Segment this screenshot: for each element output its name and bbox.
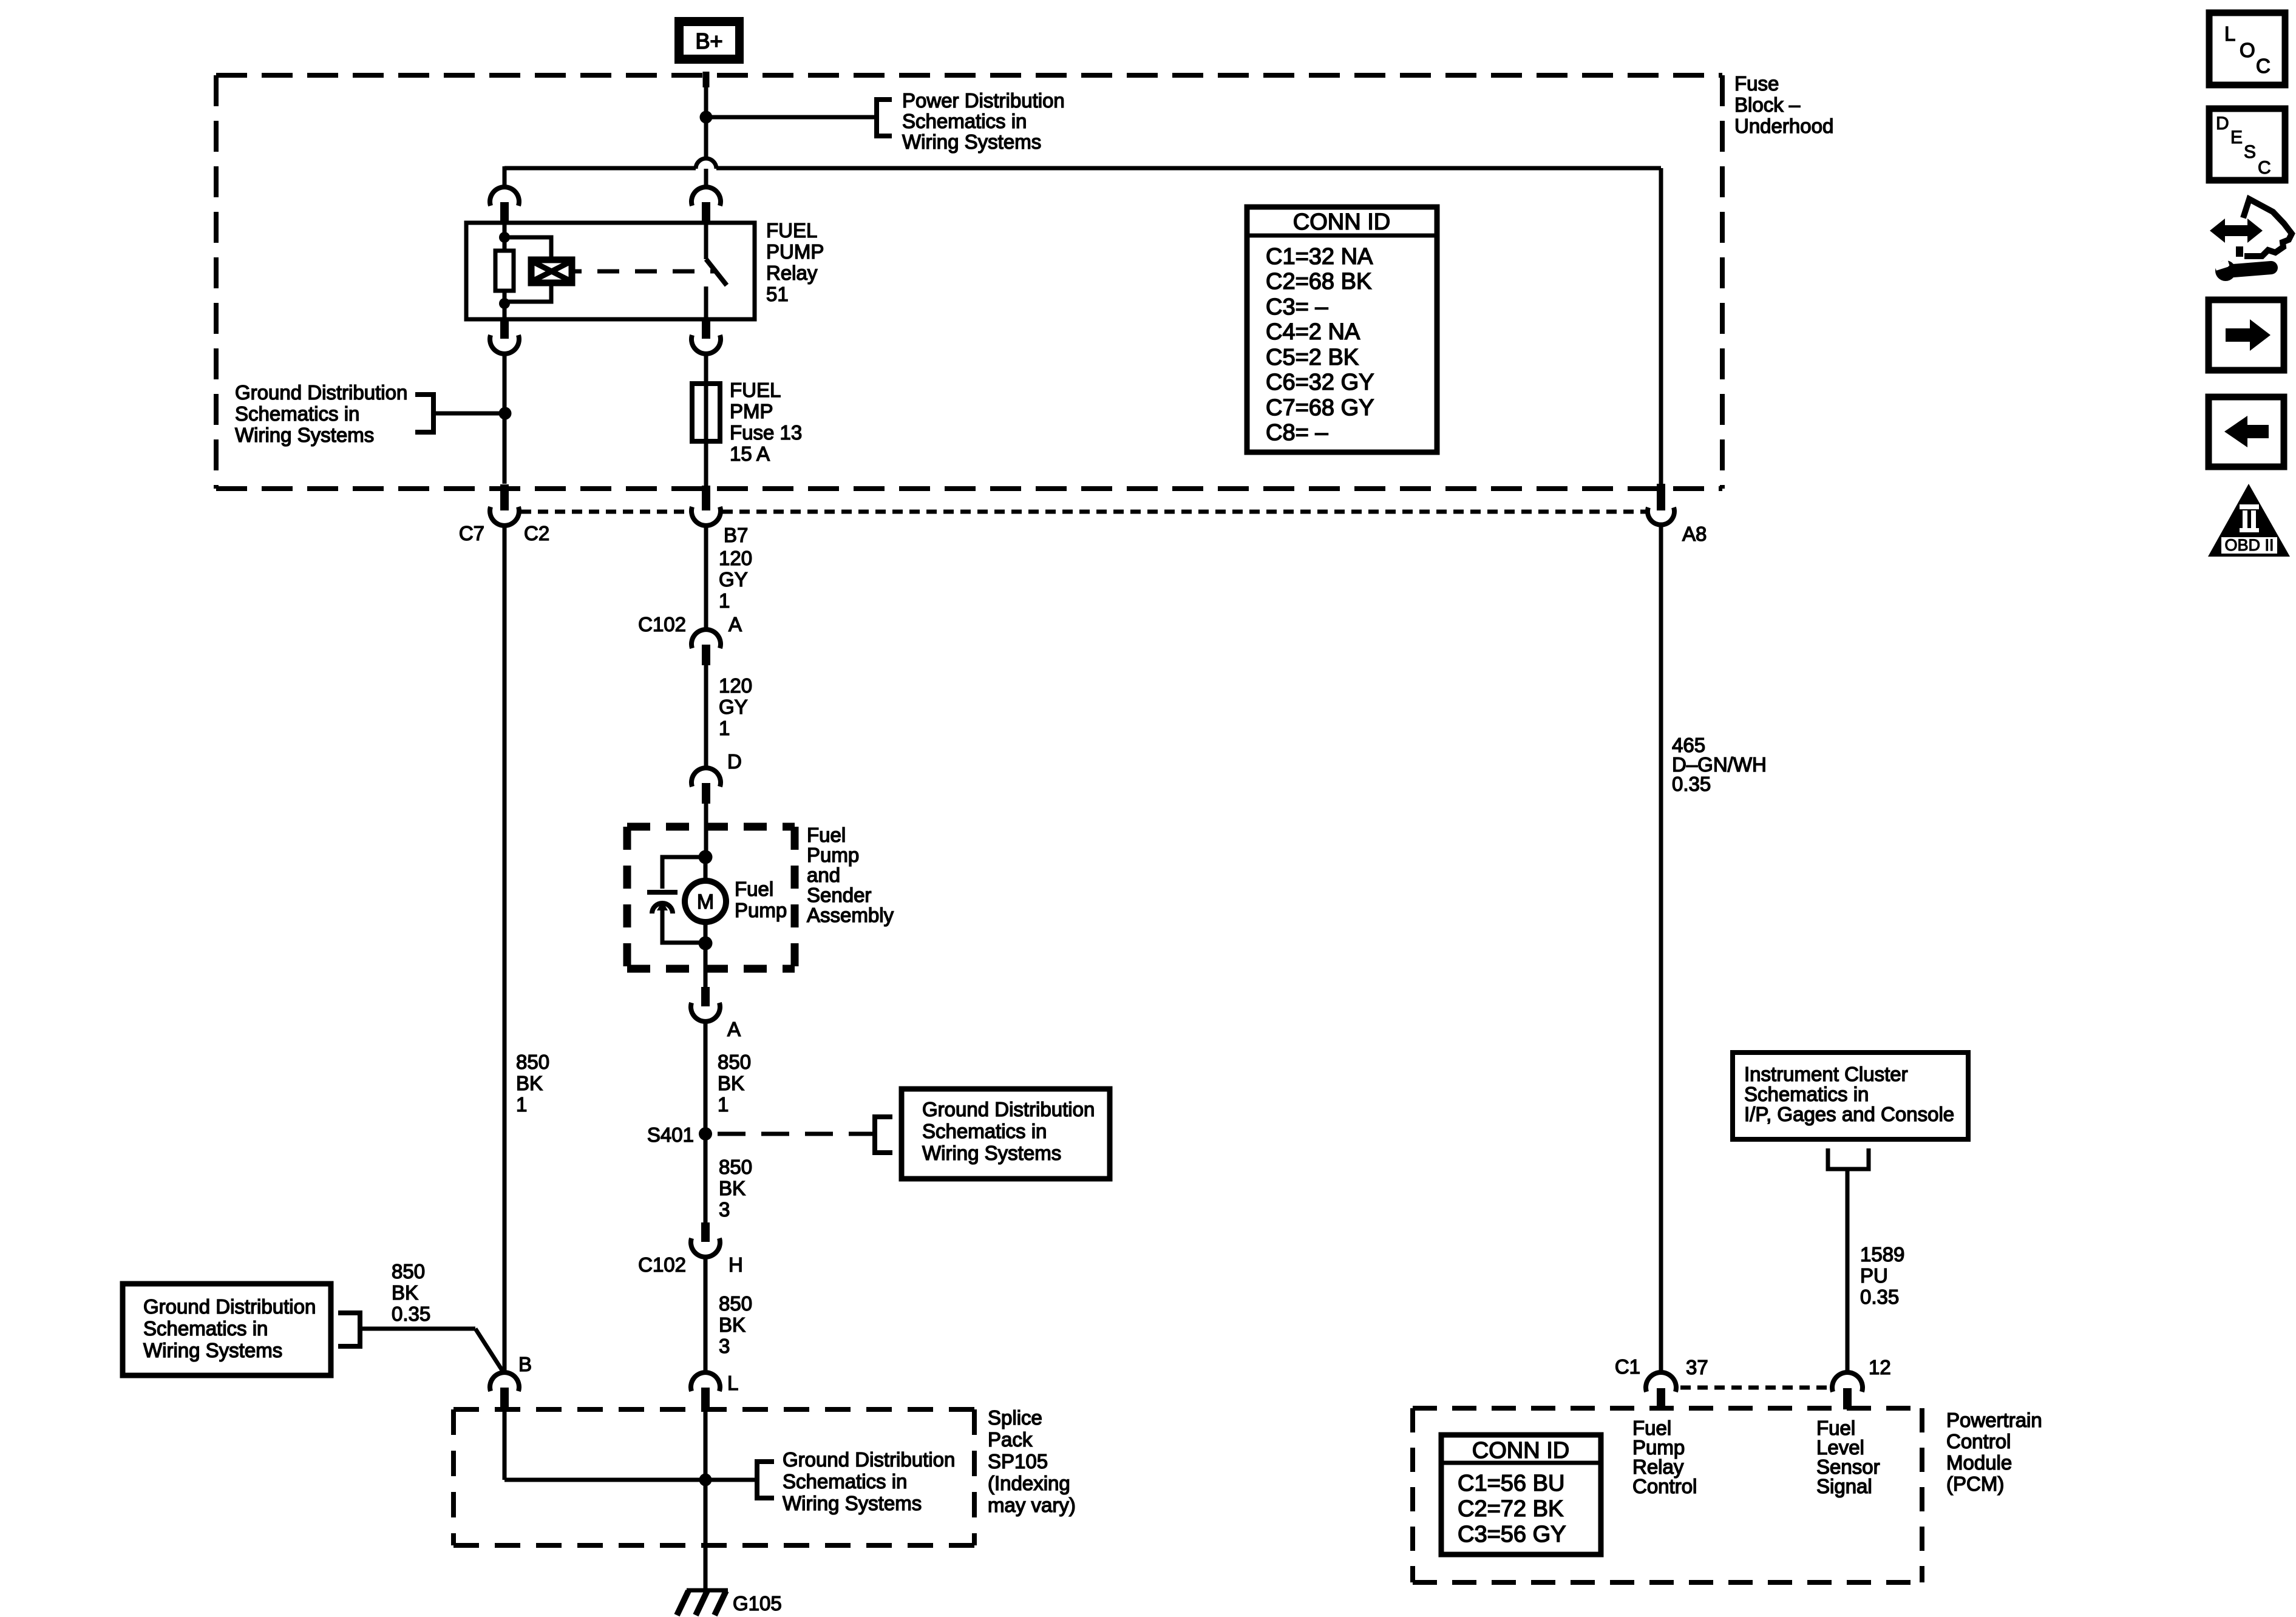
svg-text:1: 1 — [719, 717, 730, 739]
wire B+ leg down to hop — [704, 117, 708, 158]
svg-text:Module: Module — [1946, 1451, 2012, 1474]
label 1589 PU 0.35 — [1860, 1243, 1904, 1308]
connector cup C2 — [490, 507, 519, 526]
wire B+ leg below hop to relay connector — [704, 169, 708, 188]
svg-text:1589: 1589 — [1860, 1243, 1904, 1266]
svg-text:PUMP: PUMP — [766, 240, 824, 263]
label Fuel Pump — [735, 878, 787, 921]
svg-text:C7=68 GY: C7=68 GY — [1266, 395, 1374, 421]
svg-text:B7: B7 — [724, 524, 748, 546]
svg-text:Wiring Systems: Wiring Systems — [922, 1142, 1061, 1164]
svg-text:Pump: Pump — [735, 899, 787, 921]
wire left leg 850 BK down to splice B — [503, 525, 507, 1373]
svg-text:850: 850 — [392, 1260, 425, 1283]
wire S401 to C102 H — [704, 1134, 708, 1224]
CONN ID table PCM — [1441, 1435, 1601, 1554]
svg-text:Fuse 13: Fuse 13 — [730, 421, 802, 444]
bracket ground distribution top-left callout — [415, 395, 433, 432]
pin stub PCM 12 — [1843, 1388, 1852, 1409]
label 465 D-GN/WH 0.35 — [1672, 734, 1767, 795]
label Fuel Pump Relay Control — [1632, 1417, 1697, 1497]
svg-text:G105: G105 — [733, 1592, 782, 1615]
pump check valve arc — [652, 903, 673, 914]
wire B+ drop stub through border — [703, 72, 710, 87]
svg-text:Schematics in: Schematics in — [143, 1317, 268, 1340]
svg-text:A8: A8 — [1682, 523, 1707, 545]
svg-text:B+: B+ — [695, 29, 722, 53]
svg-text:FUEL: FUEL — [766, 219, 817, 242]
wire pump bracket bottom — [662, 941, 705, 943]
svg-text:Ground Distribution: Ground Distribution — [235, 381, 407, 404]
fuse block underhood dashed box — [216, 75, 1722, 489]
resistor relay coil suppression — [495, 251, 514, 291]
ground G105 — [677, 1590, 728, 1615]
icon LOC box — [2209, 13, 2285, 85]
icon OBD II warning triangle — [2208, 484, 2290, 557]
pin stub relay switch top — [702, 202, 710, 223]
wire callout diagonal to B — [475, 1329, 504, 1373]
label 850 BK 1 left leg — [516, 1051, 549, 1116]
pin stub A8 exit — [1657, 484, 1665, 510]
svg-text:Assembly: Assembly — [807, 904, 894, 926]
pump arrow up — [657, 901, 668, 943]
connector cup A8 — [1648, 507, 1674, 525]
svg-text:37: 37 — [1686, 1356, 1708, 1378]
svg-text:C1=56 BU: C1=56 BU — [1458, 1471, 1564, 1496]
connector cup relay pin 87 bottom — [691, 335, 721, 354]
svg-text:Underhood: Underhood — [1734, 115, 1833, 137]
label 120 GY 1 upper — [719, 547, 752, 612]
fine dashed connector face row — [521, 510, 1646, 514]
wire 465 leg A8 to PCM C1 — [1659, 524, 1663, 1373]
svg-text:Control: Control — [1946, 1430, 2011, 1453]
wire motor bottom — [704, 922, 708, 943]
svg-text:L: L — [727, 1372, 738, 1394]
svg-text:Relay: Relay — [766, 262, 818, 284]
fuse FUEL PMP Fuse 13 — [692, 384, 720, 441]
svg-text:12: 12 — [1869, 1356, 1891, 1378]
wire below resistor to box bottom — [503, 291, 507, 319]
svg-text:C5=2 BK: C5=2 BK — [1266, 345, 1359, 370]
connector dome PCM pin 12 — [1832, 1372, 1863, 1392]
svg-text:Instrument Cluster: Instrument Cluster — [1744, 1063, 1908, 1085]
svg-text:Power Distribution: Power Distribution — [902, 89, 1065, 112]
svg-text:Signal: Signal — [1816, 1475, 1872, 1497]
bracket S401 callout — [875, 1117, 892, 1153]
svg-text:C2: C2 — [524, 522, 549, 544]
svg-text:Schematics in: Schematics in — [902, 110, 1027, 132]
connector dome B splice pack — [490, 1372, 519, 1391]
svg-text:C3= –: C3= – — [1266, 294, 1328, 320]
svg-text:C: C — [2258, 158, 2271, 178]
svg-text:1: 1 — [516, 1093, 527, 1116]
svg-text:GY: GY — [719, 568, 748, 591]
label Fuse Block Underhood — [1734, 72, 1833, 137]
wire C102 H to L — [704, 1256, 708, 1373]
node junction dot on coil leg — [499, 407, 512, 420]
wire switch upper contact — [704, 223, 708, 259]
svg-text:C6=32 GY: C6=32 GY — [1266, 370, 1374, 395]
svg-text:C102: C102 — [638, 1253, 686, 1276]
svg-text:850: 850 — [516, 1051, 549, 1073]
node junction dot at B+ branch — [700, 111, 713, 124]
svg-text:M: M — [697, 890, 714, 914]
svg-text:BK: BK — [719, 1314, 746, 1336]
pin stub relay coil bottom — [500, 319, 509, 339]
svg-text:A: A — [729, 613, 742, 636]
svg-text:C2=68 BK: C2=68 BK — [1266, 269, 1371, 294]
wire D into pump assembly — [704, 804, 708, 857]
svg-text:C3=56 GY: C3=56 GY — [1458, 1522, 1566, 1547]
svg-text:Wiring Systems: Wiring Systems — [783, 1492, 922, 1514]
svg-text:Sender: Sender — [807, 884, 871, 906]
pin stub C102 A — [702, 645, 710, 665]
wire left corner down to coil connector — [503, 166, 507, 188]
svg-text:Pump: Pump — [807, 844, 859, 866]
pin stub B7 exit — [702, 486, 710, 510]
svg-text:Wiring Systems: Wiring Systems — [902, 131, 1041, 153]
CONN ID table fuse block — [1247, 207, 1437, 452]
box Ground Distribution S401 — [902, 1089, 1110, 1179]
label Powertrain Control Module PCM — [1946, 1409, 2042, 1495]
wire B leg inside splice pack — [503, 1407, 507, 1480]
svg-text:(PCM): (PCM) — [1946, 1473, 2004, 1495]
svg-text:850: 850 — [719, 1156, 752, 1178]
svg-text:Ground Distribution: Ground Distribution — [143, 1295, 316, 1318]
svg-text:D: D — [727, 750, 742, 773]
svg-text:BK: BK — [392, 1281, 418, 1304]
svg-text:Wiring Systems: Wiring Systems — [143, 1339, 282, 1361]
svg-text:3: 3 — [719, 1335, 730, 1357]
wire B+ down to junction — [704, 74, 708, 120]
svg-text:0.35: 0.35 — [1860, 1286, 1899, 1308]
node junction dot coil bottom — [499, 298, 510, 309]
node junction dot splice — [699, 1474, 712, 1486]
label Fuel Level Sensor Signal — [1816, 1417, 1880, 1497]
wire ground distribution callout to coil leg — [433, 412, 503, 416]
svg-text:Schematics in: Schematics in — [783, 1470, 907, 1493]
wire switch leg down to fuse — [704, 353, 708, 489]
svg-text:H: H — [729, 1253, 743, 1276]
svg-text:1: 1 — [719, 589, 730, 612]
bracket splice ground callout — [757, 1462, 774, 1498]
wire S401 dashed callout — [718, 1132, 877, 1136]
svg-text:may vary): may vary) — [988, 1494, 1076, 1516]
wire coil leg inside relay — [503, 223, 507, 251]
wire main ground leg through splice — [704, 1407, 708, 1590]
wire right leg down inside fuse block to A8 — [1659, 168, 1663, 486]
icon back arrow box — [2209, 397, 2284, 467]
bracket instrument cluster drop — [1828, 1148, 1869, 1169]
PCM dashed box — [1413, 1408, 1922, 1582]
wire A to S401 — [704, 1021, 708, 1134]
wire splice horizontal run — [504, 1478, 755, 1482]
svg-text:I/P, Gages and Console: I/P, Gages and Console — [1744, 1103, 1954, 1125]
svg-text:O: O — [2240, 39, 2255, 61]
svg-text:PU: PU — [1860, 1264, 1888, 1287]
label Fuel Pump and Sender Assembly — [807, 824, 894, 926]
wire branch to power distribution callout — [706, 115, 877, 120]
label Splice Pack SP105 — [988, 1406, 1076, 1516]
wire pump bracket left — [662, 857, 705, 889]
svg-text:and: and — [807, 864, 840, 886]
wire solenoid pigtail solid — [572, 269, 582, 274]
svg-text:Fuse: Fuse — [1734, 72, 1779, 95]
fine dashed PCM connector face — [1680, 1386, 1831, 1390]
svg-text:Powertrain: Powertrain — [1946, 1409, 2042, 1431]
B+ terminal box — [674, 17, 744, 64]
svg-text:CONN ID: CONN ID — [1472, 1438, 1569, 1463]
connector cup C102 H — [691, 1238, 720, 1257]
svg-text:BK: BK — [718, 1072, 744, 1094]
icon forward arrow box — [2209, 300, 2284, 370]
label 850 BK 0.35 — [392, 1260, 430, 1325]
splice pack SP105 dashed box — [453, 1409, 974, 1545]
svg-text:850: 850 — [718, 1051, 751, 1073]
svg-text:C1: C1 — [1615, 1355, 1640, 1378]
label 850 BK 1 pump leg — [718, 1051, 751, 1116]
pin stub relay switch bottom — [702, 319, 710, 339]
svg-text:3: 3 — [719, 1198, 730, 1221]
svg-text:C4=2 NA: C4=2 NA — [1266, 319, 1360, 345]
wire bus y277 left segment — [504, 166, 696, 171]
svg-text:C1=32 NA: C1=32 NA — [1266, 244, 1373, 269]
wire 1589 leg to PCM pin 12 — [1846, 1169, 1850, 1373]
connector cup B7 — [691, 507, 721, 526]
label Power Distribution Schematics in Wiring Systems — [902, 89, 1065, 153]
svg-text:B: B — [518, 1353, 532, 1375]
pin stub D — [702, 783, 710, 804]
wire coil bracket right and down — [504, 237, 551, 260]
connector dome relay pin 30 switch top — [691, 187, 721, 206]
connector dome D — [691, 768, 721, 787]
node junction dot pump bottom — [699, 937, 713, 951]
svg-text:S401: S401 — [647, 1124, 694, 1146]
switch blade relay — [706, 259, 727, 285]
svg-text:120: 120 — [719, 674, 752, 697]
connector dome relay pin 85 coil top — [490, 187, 519, 206]
svg-text:SP105: SP105 — [988, 1450, 1048, 1473]
svg-text:120: 120 — [719, 547, 752, 569]
icon DESC box — [2209, 109, 2285, 180]
pin stub C102 H — [701, 1222, 710, 1242]
wire C102 A to D — [704, 665, 708, 768]
svg-text:0.35: 0.35 — [392, 1303, 430, 1325]
connector dome L splice pack — [691, 1372, 720, 1391]
svg-text:Wiring Systems: Wiring Systems — [235, 424, 374, 446]
svg-text:L: L — [2224, 22, 2235, 45]
svg-text:PMP: PMP — [730, 400, 773, 422]
svg-text:E: E — [2230, 127, 2243, 147]
label FUEL PMP Fuse 13 15 A — [730, 379, 802, 465]
svg-text:Fuel: Fuel — [807, 824, 846, 846]
svg-text:GY: GY — [719, 696, 748, 718]
svg-text:850: 850 — [719, 1292, 752, 1315]
svg-text:FUEL: FUEL — [730, 379, 781, 401]
svg-text:OBD II: OBD II — [2224, 536, 2274, 554]
wire relay actuation dashed link — [597, 269, 715, 274]
svg-text:Schematics in: Schematics in — [1744, 1083, 1869, 1105]
node junction dot coil top — [499, 232, 510, 243]
svg-text:15 A: 15 A — [730, 442, 770, 465]
svg-text:BK: BK — [516, 1072, 543, 1094]
relay coil solenoid box with X — [531, 260, 572, 283]
pin stub PCM 37 — [1657, 1388, 1665, 1409]
svg-text:C8= –: C8= – — [1266, 420, 1328, 446]
wire callout horizontal run — [360, 1327, 475, 1331]
pin stub B — [500, 1388, 509, 1407]
svg-text:C2=72 BK: C2=72 BK — [1458, 1496, 1563, 1522]
svg-text:Ground Distribution: Ground Distribution — [783, 1448, 955, 1471]
pin stub A — [701, 987, 710, 1006]
wire motor top — [704, 857, 708, 881]
svg-text:51: 51 — [766, 283, 789, 305]
svg-text:1: 1 — [718, 1093, 729, 1116]
wire coil bracket bottom return — [504, 283, 551, 302]
svg-text:Splice: Splice — [988, 1406, 1042, 1429]
svg-text:C102: C102 — [638, 613, 686, 636]
bracket bottom-left callout — [338, 1313, 360, 1346]
node junction dot pump top — [699, 850, 713, 864]
label FUEL PUMP Relay 51 — [766, 219, 824, 305]
svg-text:C: C — [2256, 55, 2271, 77]
label 850 BK 3 upper — [719, 1156, 752, 1221]
fuel pump and sender assembly dashed box — [627, 827, 795, 969]
svg-text:Ground Distribution: Ground Distribution — [922, 1098, 1095, 1120]
svg-text:Fuel: Fuel — [735, 878, 773, 900]
svg-text:(Indexing: (Indexing — [988, 1472, 1070, 1494]
svg-text:Block –: Block – — [1734, 93, 1801, 116]
svg-text:BK: BK — [719, 1177, 746, 1199]
svg-text:Control: Control — [1632, 1475, 1697, 1497]
wire coil leg down to C2 — [503, 353, 507, 484]
motor fuel pump — [685, 881, 726, 922]
connector cup relay pin 86 bottom — [490, 335, 519, 354]
svg-text:Pack: Pack — [988, 1428, 1033, 1451]
wire B7 leg down to C102 A — [704, 525, 708, 630]
svg-text:S: S — [2244, 142, 2256, 162]
svg-text:D: D — [2216, 114, 2229, 134]
wire switch lower contact — [704, 286, 708, 319]
pin stub C2 exit — [500, 484, 509, 510]
svg-text:A: A — [727, 1018, 741, 1040]
wire hop arc over bus — [696, 158, 716, 169]
pin stub L — [701, 1388, 710, 1407]
box Ground Distribution bottom-left — [123, 1284, 331, 1375]
svg-text:C7: C7 — [459, 522, 484, 544]
label 850 BK 3 lower — [719, 1292, 752, 1357]
icon vehicle harness with double arrow and wrench — [2210, 199, 2292, 281]
connector dome C102 A — [691, 629, 721, 648]
svg-text:0.35: 0.35 — [1672, 773, 1711, 795]
svg-text:Schematics in: Schematics in — [922, 1120, 1047, 1142]
node splice S401 — [699, 1127, 712, 1141]
wire bus y277 right segment to A8 corner — [716, 166, 1661, 171]
relay box FUEL PUMP Relay 51 — [466, 223, 755, 319]
pin stub relay coil top — [500, 202, 509, 223]
pump plate bar — [647, 890, 678, 895]
label Ground Distribution Schematics in Wiring Systems top-left — [235, 381, 407, 446]
box Instrument Cluster callout — [1733, 1053, 1968, 1139]
connector dome PCM C1 pin 37 — [1646, 1372, 1676, 1392]
svg-text:Schematics in: Schematics in — [235, 402, 359, 425]
label 120 GY 1 lower — [719, 674, 752, 739]
connector cup A — [691, 1003, 720, 1022]
wire pump exit to A — [704, 943, 708, 988]
label Ground Distribution Schematics in Wiring Systems splice — [783, 1448, 955, 1514]
svg-text:CONN ID: CONN ID — [1293, 209, 1390, 235]
bracket power distribution callout — [877, 100, 892, 136]
